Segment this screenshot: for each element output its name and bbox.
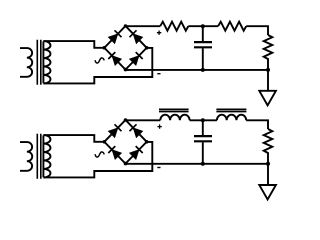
node bridge + vertex bbox=[124, 24, 128, 28]
diode D5 bbox=[109, 124, 122, 137]
transformer T2 primary winding bbox=[20, 142, 32, 171]
node filter junction B bbox=[201, 118, 205, 122]
diode D6 bbox=[130, 124, 143, 137]
wire - rail (top circuit) bbox=[126, 69, 269, 71]
bridge rectifier BR2 diamond frame bbox=[104, 120, 146, 164]
AC source label ~ (bottom) bbox=[95, 152, 104, 157]
node rail to ground junction bbox=[266, 68, 270, 72]
AC source label ~ (top) bbox=[95, 58, 104, 63]
transformer T1 secondary winding bbox=[43, 41, 50, 83]
diode D8 bbox=[130, 146, 143, 159]
node rail2 to ground junction bbox=[266, 162, 270, 166]
capacitor C1 bbox=[194, 26, 212, 70]
node bridge2 - vertex bbox=[124, 162, 128, 166]
capacitor C2 bbox=[194, 120, 212, 164]
resistor Rload (bottom) bbox=[264, 129, 273, 164]
transformer T2 core bbox=[37, 134, 41, 179]
resistor R2 bbox=[218, 22, 246, 31]
transformer T2 secondary winding bbox=[43, 135, 50, 177]
resistor Rload (top) bbox=[264, 35, 273, 70]
label + (bottom circuit) bbox=[157, 124, 161, 128]
inductor L2 winding bbox=[217, 115, 246, 121]
wire bridge2 + output to L1 bbox=[126, 119, 161, 121]
wire T1 secondary bottom lead to bridge AC2 bbox=[43, 48, 152, 84]
transformer T1 primary winding bbox=[20, 48, 32, 77]
label + (top circuit) bbox=[157, 31, 161, 35]
node bridge2 right AC vertex bbox=[145, 140, 149, 144]
node bridge right AC vertex bbox=[145, 46, 149, 50]
bridge rectifier BR1 diamond frame bbox=[104, 26, 146, 70]
diode D2 bbox=[130, 30, 143, 43]
label - (bottom circuit) bbox=[157, 167, 160, 169]
diode D1 bbox=[109, 30, 122, 43]
inductor L1 winding bbox=[160, 115, 189, 121]
wire - rail (bottom circuit) bbox=[126, 163, 269, 165]
ground symbol (bottom circuit) bbox=[259, 164, 276, 200]
wire T1 secondary top lead to bridge AC1 bbox=[43, 41, 104, 48]
transformer T1 core bbox=[37, 40, 41, 85]
inductor L2 core bars bbox=[216, 109, 246, 111]
node filter junction A bbox=[201, 24, 205, 28]
node bridge2 + vertex bbox=[124, 118, 128, 122]
wire R2 to load bbox=[246, 26, 268, 35]
node C1 to rail junction bbox=[201, 68, 205, 72]
inductor L1 core bars bbox=[159, 109, 189, 111]
diode D7 bbox=[108, 146, 121, 159]
wire L1 to L2 bbox=[190, 119, 217, 121]
wire T2 secondary top lead to bridge AC1 bbox=[43, 135, 104, 142]
node bridge - vertex bbox=[124, 68, 128, 72]
diode D3 bbox=[108, 52, 121, 65]
diode D4 bbox=[130, 52, 143, 65]
node bridge2 left AC vertex bbox=[103, 140, 107, 144]
wire L2 to load bbox=[246, 120, 268, 129]
wire R1 to R2 bbox=[188, 25, 218, 27]
label - (top circuit) bbox=[157, 73, 160, 75]
wire bridge + output to R1 bbox=[126, 25, 161, 27]
wire T2 secondary bottom lead to bridge AC2 bbox=[43, 142, 152, 178]
node C2 to rail junction bbox=[201, 162, 205, 166]
resistor R1 bbox=[160, 22, 188, 31]
node bridge left AC vertex bbox=[103, 46, 107, 50]
ground symbol (top circuit) bbox=[259, 70, 276, 105]
